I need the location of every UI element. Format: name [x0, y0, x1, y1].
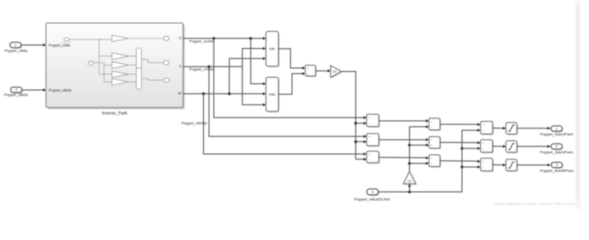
svg-text:2: 2 [15, 88, 17, 92]
svg-text:Puppet_AdxWPwm: Puppet_AdxWPwm [540, 168, 575, 173]
svg-text:1: 1 [556, 127, 558, 131]
svg-text:Puppet_AdxVPwm: Puppet_AdxVPwm [540, 149, 574, 154]
svg-text:min: min [269, 47, 275, 51]
svg-text:Puppet_vBeta: Puppet_vBeta [4, 93, 29, 97]
svg-text:Puppet_vAlfa: Puppet_vAlfa [5, 49, 28, 53]
svg-text:max: max [269, 93, 276, 97]
svg-text:betamn dMbfonal sanwder nonlin: betamn dMbfonal sanwder nonlinsw TGBL6-V… [494, 202, 575, 206]
svg-text:Puppet_vBeta: Puppet_vBeta [85, 65, 98, 68]
svg-text:Puppet_vUSet: Puppet_vUSet [189, 39, 214, 43]
svg-text:1/2: 1/2 [333, 70, 337, 74]
svg-text:Puppet_vWSet: Puppet_vWSet [182, 122, 208, 126]
svg-text:Puppet_AdxUPwm: Puppet_AdxUPwm [540, 132, 574, 137]
svg-text:2: 2 [556, 145, 558, 149]
svg-text:3: 3 [556, 163, 558, 167]
svg-text:Puppet_vVSet: Puppet_vVSet [189, 68, 214, 72]
svg-text:Puppet_vBeta: Puppet_vBeta [49, 88, 72, 92]
svg-text:Inverse_Park: Inverse_Park [102, 111, 128, 116]
svg-text:Puppet_vAlfa: Puppet_vAlfa [61, 41, 73, 44]
svg-text:1: 1 [15, 43, 17, 47]
svg-text:3: 3 [372, 190, 374, 194]
svg-text:Puppet_vBusDCAct: Puppet_vBusDCAct [354, 196, 391, 201]
svg-text:1/2: 1/2 [407, 179, 411, 183]
